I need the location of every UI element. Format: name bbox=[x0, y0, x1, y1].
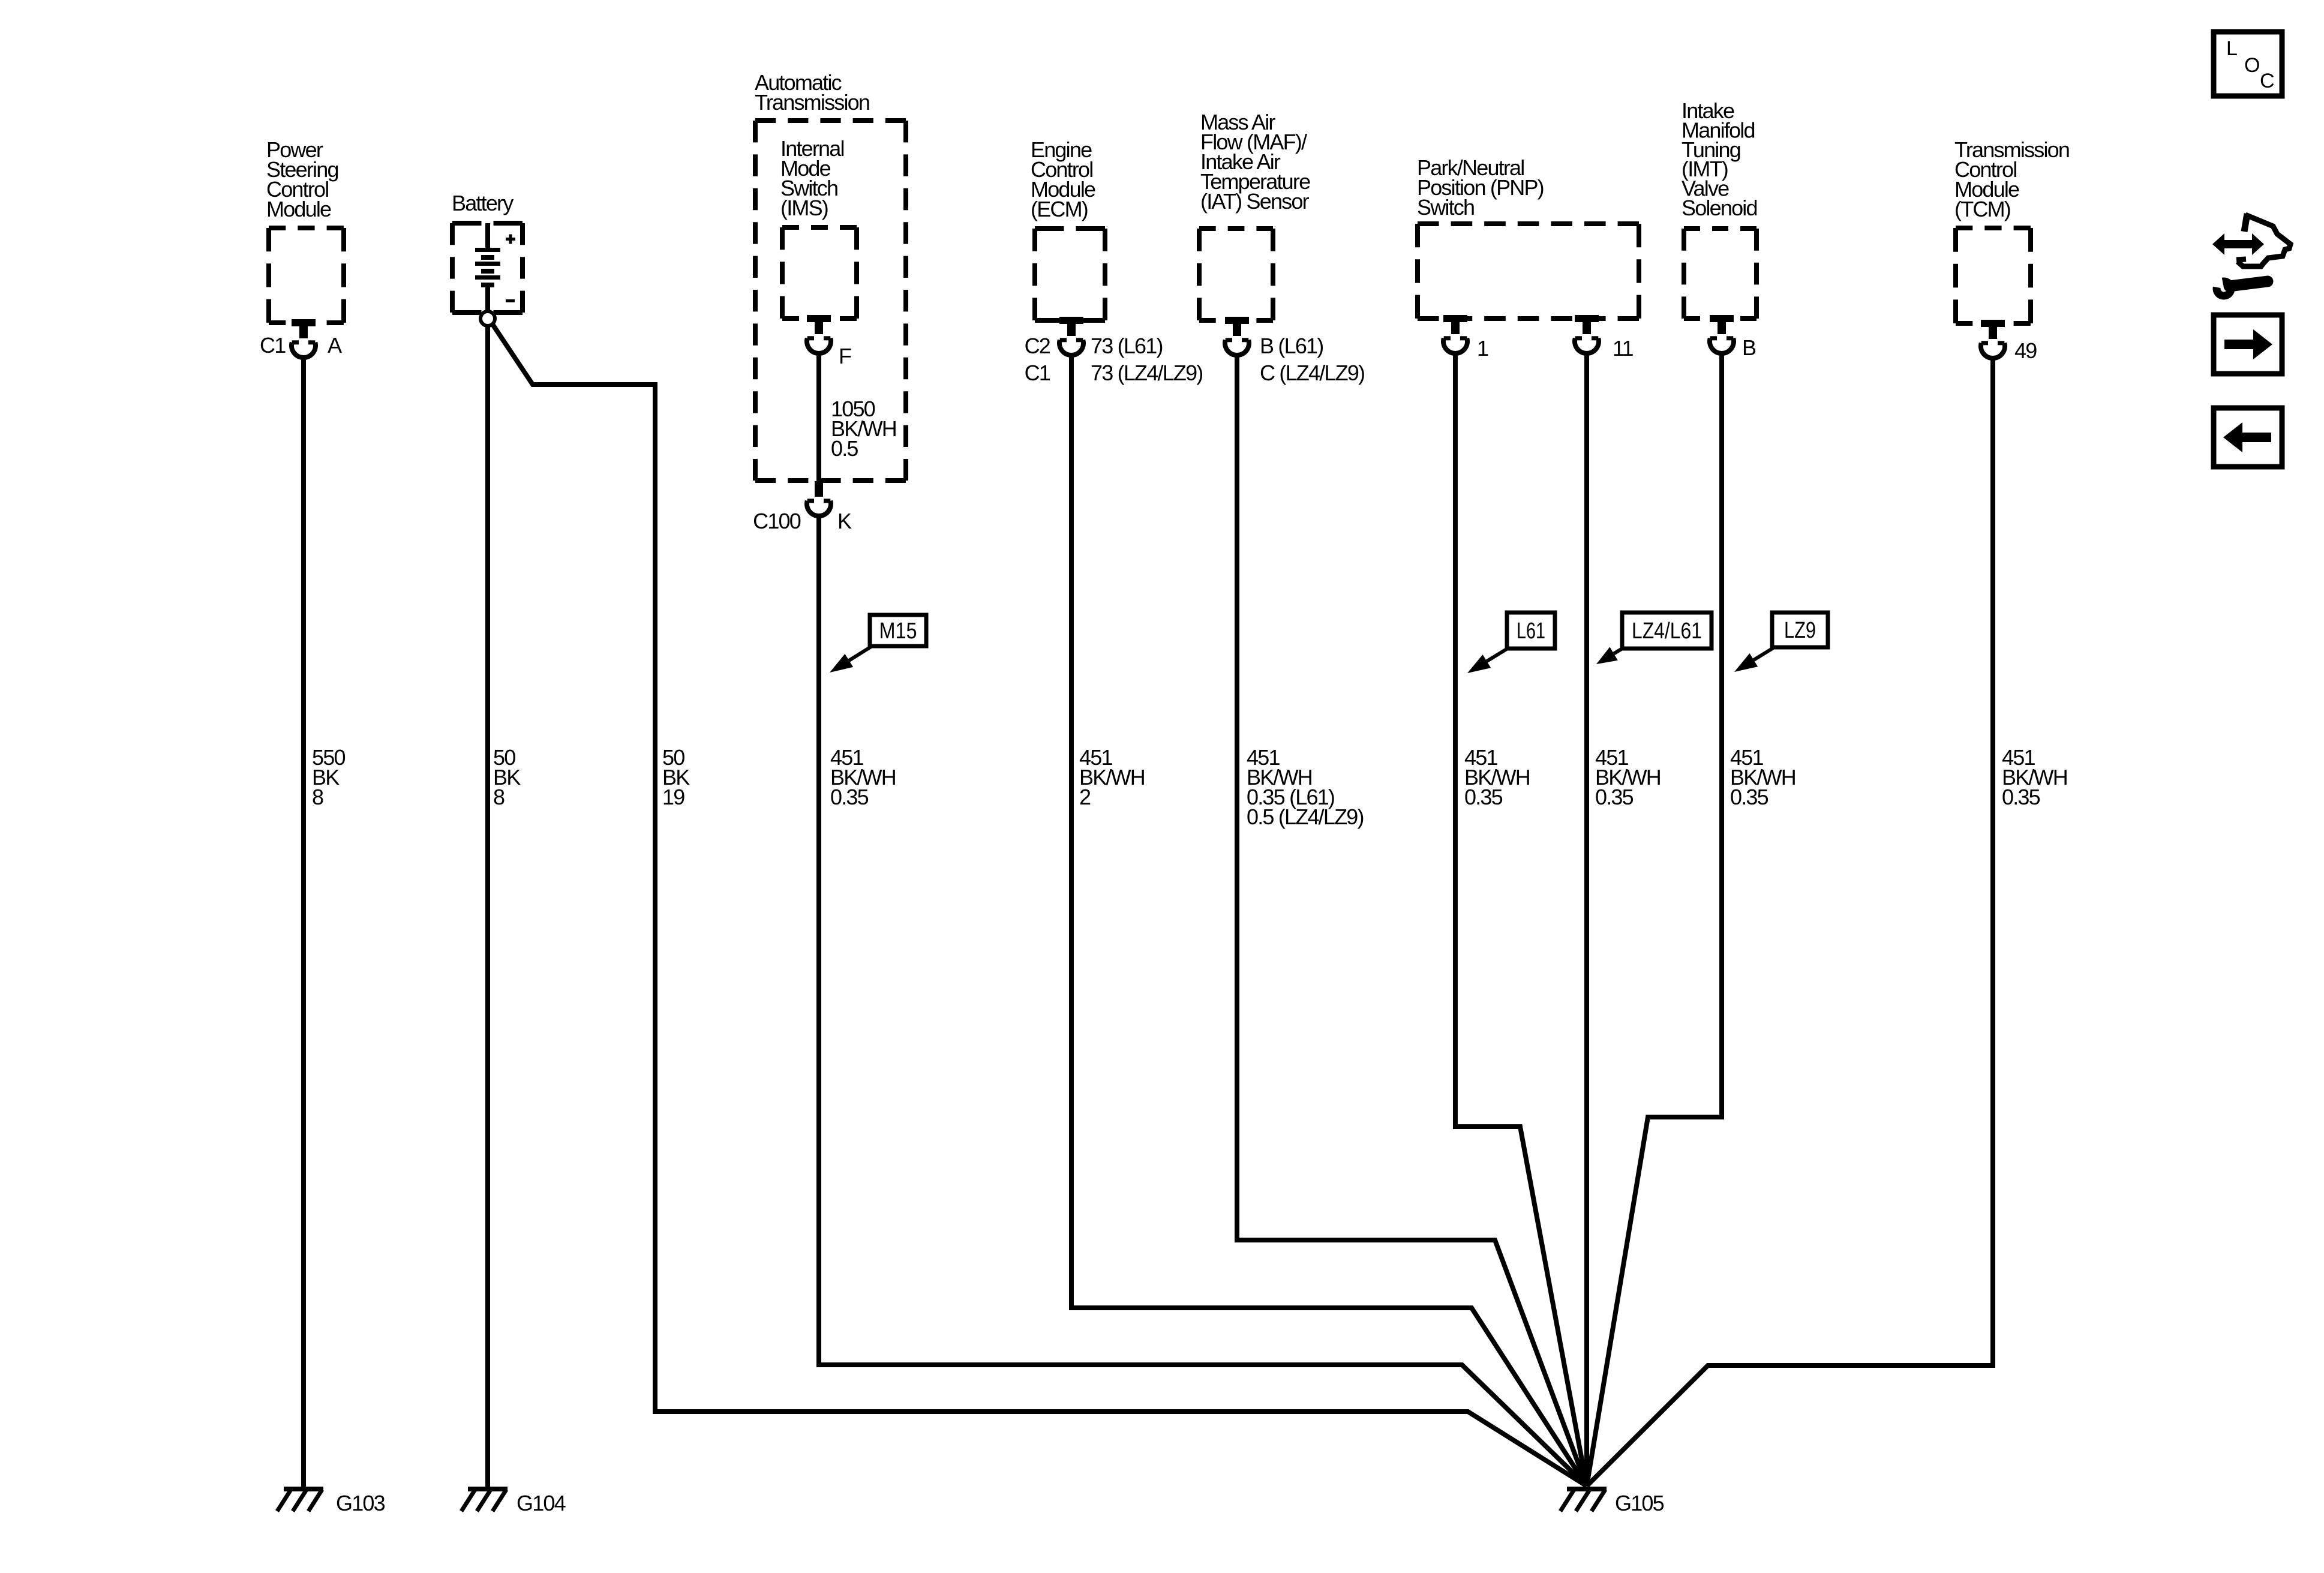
wire label 50 BK 8 bbox=[493, 745, 521, 809]
svg-text:0.5: 0.5 bbox=[831, 436, 858, 461]
wire label 451 BK/WH 0.35 (IMS wire) bbox=[830, 745, 896, 809]
engine tag LZ4/L61 bbox=[1596, 613, 1712, 664]
svg-text:C: C bbox=[2260, 70, 2274, 92]
svg-text:Transmission: Transmission bbox=[755, 90, 869, 115]
svg-text:Solenoid: Solenoid bbox=[1682, 196, 1757, 220]
pin label A bbox=[328, 333, 342, 358]
wire label 451 BK/WH 0.35/0.5 bbox=[1247, 745, 1364, 829]
svg-text:B (L61): B (L61) bbox=[1260, 334, 1323, 358]
module TCM box bbox=[1956, 228, 2031, 323]
svg-text:49: 49 bbox=[2014, 338, 2037, 363]
ground G104 bbox=[461, 1489, 566, 1515]
svg-text:Battery: Battery bbox=[452, 191, 514, 215]
automatic transmission name label bbox=[755, 70, 869, 115]
module ECM name label bbox=[1031, 137, 1095, 221]
sensor MAF/IAT box bbox=[1199, 229, 1273, 320]
LOC locator icon bbox=[2214, 32, 2282, 96]
battery B1 symbol plates bbox=[475, 223, 500, 311]
switch PNP name label bbox=[1417, 155, 1544, 220]
svg-text:LZ9: LZ9 bbox=[1784, 618, 1816, 643]
engine tag LZ9 bbox=[1734, 613, 1828, 672]
svg-text:LZ4/L61: LZ4/L61 bbox=[1632, 619, 1702, 644]
wire 50 BK 19 (battery junction to G105) bbox=[492, 323, 1587, 1486]
automatic transmission outer box bbox=[755, 121, 906, 481]
pin label B bbox=[1742, 335, 1756, 360]
wire label 451 BK/WH 0.35 (TCM) bbox=[2002, 745, 2067, 809]
pin label B (L61) bbox=[1260, 334, 1323, 358]
svg-text:0.35: 0.35 bbox=[1730, 785, 1768, 809]
wire 451 BK/WH 0.35 (TCM to G105) bbox=[1587, 358, 1993, 1486]
svg-text:A: A bbox=[328, 333, 342, 358]
module TCM name label bbox=[1954, 137, 2069, 221]
pin label F bbox=[839, 344, 851, 368]
pin label C100 bbox=[753, 509, 801, 533]
pin label C2 bbox=[1025, 334, 1050, 358]
wire 50 BK 8 (battery to G104) bbox=[485, 326, 490, 1489]
ground G105 bbox=[1560, 1489, 1664, 1515]
svg-text:0.35: 0.35 bbox=[2002, 785, 2040, 809]
harness tag M15 bbox=[830, 615, 926, 673]
svg-text:(IMS): (IMS) bbox=[780, 196, 828, 220]
connector pin B of IMT bbox=[1710, 315, 1734, 353]
svg-text:1: 1 bbox=[1477, 336, 1488, 361]
svg-text:(TCM): (TCM) bbox=[1954, 197, 2010, 221]
wire label 451 BK/WH 2 bbox=[1079, 745, 1145, 809]
svg-text:G103: G103 bbox=[336, 1491, 385, 1515]
svg-text:L61: L61 bbox=[1517, 619, 1545, 644]
module ECM box bbox=[1035, 229, 1105, 320]
pin label 73 (L61) bbox=[1091, 334, 1163, 358]
connector pin F of IMS bbox=[807, 315, 831, 353]
wire label 451 BK/WH 0.35 (IMT) bbox=[1730, 745, 1795, 809]
svg-text:Switch: Switch bbox=[1417, 195, 1474, 220]
svg-text:L: L bbox=[2226, 37, 2237, 60]
svg-text:73 (L61): 73 (L61) bbox=[1091, 334, 1163, 358]
wire label 50 BK 19 bbox=[662, 745, 690, 809]
svg-text:0.35: 0.35 bbox=[830, 785, 869, 809]
svg-text:0.35: 0.35 bbox=[1464, 785, 1503, 809]
pin label C1 bbox=[1025, 361, 1050, 385]
navigation icon arrow right bbox=[2214, 315, 2282, 374]
engine tag L61 bbox=[1467, 613, 1555, 673]
wire 451 BK/WH 0.35 (IMT to G105) bbox=[1587, 353, 1722, 1486]
svg-text:C100: C100 bbox=[753, 509, 801, 533]
svg-text:(ECM): (ECM) bbox=[1031, 197, 1088, 221]
pin label 1 bbox=[1477, 336, 1488, 361]
junction node below battery bbox=[481, 311, 495, 326]
pin label K bbox=[837, 509, 852, 533]
pin label C (LZ4/LZ9) bbox=[1260, 361, 1364, 385]
wire 451 BK/WH 0.35 (PNP pin 11 to G105) bbox=[1584, 353, 1589, 1486]
svg-text:8: 8 bbox=[493, 785, 505, 809]
connector pin 49 of TCM bbox=[1981, 320, 2005, 358]
wire label 1050 BK/WH 0.5 bbox=[831, 397, 896, 461]
svg-text:C (LZ4/LZ9): C (LZ4/LZ9) bbox=[1260, 361, 1364, 385]
battery minus terminal label bbox=[506, 299, 515, 302]
pin label 73 (LZ4/LZ9) bbox=[1091, 361, 1203, 385]
svg-text:0.35: 0.35 bbox=[1595, 785, 1634, 809]
svg-text:G104: G104 bbox=[517, 1491, 566, 1515]
svg-text:C1: C1 bbox=[1025, 361, 1050, 385]
ground G103 bbox=[277, 1489, 385, 1515]
svg-text:Module: Module bbox=[266, 197, 331, 221]
pin label C1 bbox=[260, 333, 286, 358]
svg-text:G105: G105 bbox=[1615, 1491, 1664, 1515]
wire label 550 BK 8 bbox=[312, 745, 345, 809]
solenoid IMT name label bbox=[1682, 98, 1757, 220]
pin label 49 bbox=[2014, 338, 2037, 363]
svg-text:K: K bbox=[837, 509, 852, 533]
svg-text:2: 2 bbox=[1079, 785, 1091, 809]
battery name label bbox=[452, 191, 514, 215]
wire 451 BK/WH 0.35 (PNP pin 1 to G105) bbox=[1455, 353, 1587, 1486]
connector C100 pin K bbox=[807, 481, 831, 516]
wire 1050 BK/WH 0.5 (IMS to C100) bbox=[816, 353, 821, 481]
svg-text:C1: C1 bbox=[260, 333, 286, 358]
svg-text:B: B bbox=[1742, 335, 1756, 360]
module PSCM name label bbox=[266, 137, 338, 221]
svg-text:O: O bbox=[2244, 54, 2259, 77]
wire label 451 BK/WH 0.35 (PNP 11) bbox=[1595, 745, 1661, 809]
pin label 11 bbox=[1613, 336, 1634, 361]
connector pin A of PSCM (C1) bbox=[292, 319, 316, 358]
svg-text:C2: C2 bbox=[1025, 334, 1050, 358]
navigation icon arrow left bbox=[2214, 408, 2282, 467]
vehicle diagnostic icon (double arrow, outline, wrench) bbox=[2212, 214, 2290, 296]
wire 451 BK/WH (MAF to G105) bbox=[1237, 355, 1587, 1486]
module PSCM box bbox=[269, 228, 344, 323]
battery plus terminal label bbox=[506, 235, 515, 244]
wire label 451 BK/WH 0.35 (PNP 1) bbox=[1464, 745, 1530, 809]
battery box bbox=[452, 223, 523, 313]
connector pin 11 of PNP bbox=[1575, 315, 1599, 353]
svg-text:(IAT) Sensor: (IAT) Sensor bbox=[1200, 189, 1310, 214]
switch PNP box bbox=[1418, 224, 1639, 319]
svg-text:M15: M15 bbox=[879, 619, 917, 644]
wire 550 BK 8 (PSCM to G103) bbox=[301, 358, 306, 1489]
IMS inner box bbox=[782, 227, 857, 319]
sensor MAF/IAT name label bbox=[1200, 110, 1310, 214]
svg-text:11: 11 bbox=[1613, 336, 1634, 361]
connector pin B/C of MAF/IAT bbox=[1225, 317, 1249, 355]
connector pin 73 of ECM bbox=[1059, 317, 1083, 355]
svg-text:19: 19 bbox=[662, 785, 684, 809]
svg-text:F: F bbox=[839, 344, 851, 368]
svg-text:0.5 (LZ4/LZ9): 0.5 (LZ4/LZ9) bbox=[1247, 804, 1364, 829]
wire 451 BK/WH 2 (ECM to G105) bbox=[1071, 355, 1587, 1486]
connector pin 1 of PNP bbox=[1443, 315, 1467, 353]
svg-text:8: 8 bbox=[312, 785, 323, 809]
solenoid IMT box bbox=[1684, 229, 1756, 319]
wire 451 BK/WH 0.35 (C100 to G105) bbox=[819, 516, 1587, 1486]
IMS name label bbox=[780, 136, 844, 220]
svg-text:73 (LZ4/LZ9): 73 (LZ4/LZ9) bbox=[1091, 361, 1203, 385]
